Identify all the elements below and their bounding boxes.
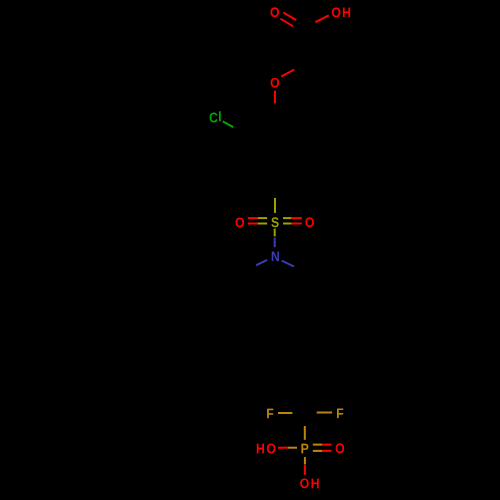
label: phosphorus P bbox=[301, 444, 308, 454]
wire: S=O right upper olive half bbox=[283, 217, 291, 219]
label: carbonyl O bbox=[270, 7, 279, 17]
label: acid OH - O bbox=[332, 7, 341, 17]
wire: P=O lower P-side half bbox=[313, 450, 322, 452]
label: ether O bbox=[271, 78, 280, 88]
label: chlorine Cl - l bbox=[219, 111, 221, 121]
wire: O-CH2 bond O-side half bbox=[281, 70, 294, 77]
label: phosphono HO - H bbox=[257, 444, 264, 454]
wire: S=O left lower olive half bbox=[258, 223, 267, 225]
label: phosphono OH - H bbox=[311, 479, 318, 489]
label: phosphono HO - O bbox=[267, 443, 276, 453]
wire: N-C6p bond N-side half bbox=[282, 261, 294, 267]
wire: HO-P bond O-side half bbox=[278, 447, 288, 449]
wire: CF2-P bond P-side half bbox=[304, 426, 306, 440]
wire: C4 ring-S bond S-side half bbox=[274, 198, 276, 213]
wire: F-CF2 right bond F-side half bbox=[317, 412, 332, 414]
label: fluorine F right bbox=[337, 408, 343, 418]
wire: C=O double bond upper half bbox=[283, 13, 296, 21]
label: piperidine N bbox=[272, 252, 279, 262]
label: phosphono P=O oxygen bbox=[336, 443, 345, 453]
wire: P-OH bond P-side half bbox=[304, 457, 306, 464]
wire: S=O left upper red half bbox=[248, 217, 258, 219]
wire: P=O upper O-side half bbox=[322, 444, 331, 446]
wire: S-N bond S-side half bbox=[274, 229, 276, 237]
wire: Cl-C2 ring bond Cl-side half bbox=[223, 121, 233, 127]
label: sulfonyl O right bbox=[305, 217, 314, 227]
label: phosphono OH - O bbox=[300, 478, 309, 488]
wire: S=O right lower red half bbox=[291, 223, 301, 225]
label: sulfonyl O left bbox=[236, 217, 245, 227]
wire: C=O double bond lower half bbox=[280, 19, 293, 27]
label: chlorine Cl - C bbox=[210, 113, 218, 123]
wire: P-OH bond O-side half bbox=[304, 465, 306, 475]
wire: HO-P bond P-side half bbox=[288, 447, 297, 449]
wire: S-N bond N-side half bbox=[274, 238, 276, 248]
label: acid OH - H bbox=[343, 8, 350, 18]
wire: S=O left upper olive half bbox=[258, 217, 267, 219]
label: fluorine F left bbox=[267, 409, 273, 419]
wire: S=O left lower red half bbox=[248, 223, 258, 225]
wire: S=O right upper red half bbox=[291, 217, 301, 219]
wire: P=O upper P-side half bbox=[313, 444, 322, 446]
wire: C-OH bond O-side half bbox=[315, 15, 328, 22]
wire: O-C1 ring bond O-side half bbox=[274, 91, 276, 104]
wire: F-CF2 left bond F-side half bbox=[278, 412, 292, 414]
wire: S=O right lower olive half bbox=[283, 223, 291, 225]
label: sulfur S bbox=[271, 217, 278, 227]
wire: P=O lower O-side half bbox=[322, 450, 331, 452]
wire: N-C2p bond N-side half bbox=[256, 260, 267, 265]
